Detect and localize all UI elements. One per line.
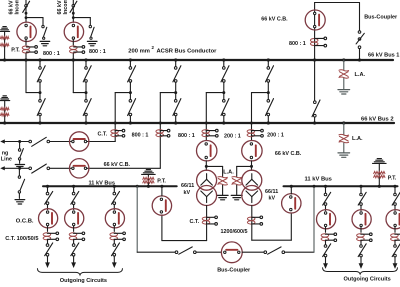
outgoing line 1 earthing switch earth [15, 160, 24, 166]
label L.A. (bus 1) [355, 72, 366, 78]
incoming line 1 crossing dot on bus 1 [24, 58, 27, 61]
11 kV bus coupler wire to OCB [196, 251, 221, 253]
incoming line 1 wire from top [25, 0, 27, 22]
incoming line 2 junction dots [72, 12, 75, 19]
feeder x=325.5: O.C.B. [317, 210, 336, 229]
bus selector transformer 1: dot on bus 1 [222, 58, 225, 61]
feeder x=114.3: O.C.B. [105, 209, 124, 228]
label 200 : 1 (bay 1) [224, 134, 241, 140]
svg-text:Outgoing Circuits: Outgoing Circuits [60, 278, 107, 284]
transformer 2 run to OCB [252, 213, 291, 240]
feeder x=395: O.C.B. [386, 210, 400, 229]
bus selector transformer 1: wire bus1 to isolator [223, 60, 225, 67]
lightning arrester transformer 1 earth [217, 185, 228, 200]
svg-text:C.T.: C.T. [190, 219, 200, 225]
bus selector outgoing line 2: junction dot [174, 82, 177, 94]
11 kV bus coupler wire left [137, 251, 175, 253]
11 kV bus left section [43, 185, 177, 187]
bus selector incoming line 1: dot on bus 2 [38, 121, 41, 124]
incoming line 2 circuit breaker 66 kV C.B. [64, 22, 83, 41]
label 200 mm2 ACSR Bus Conductor [128, 45, 217, 55]
11 kV bus coupler wire right [285, 251, 314, 253]
svg-text:200 : 1: 200 : 1 [224, 134, 241, 140]
bus selector outgoing line 2: isolator to bus 2 [173, 99, 181, 116]
incoming line 2 crossing dot on bus 1 [72, 58, 75, 61]
bus selector incoming line 2: isolator to bus 2 [83, 99, 91, 116]
P.T. on 11 kV bus left [142, 170, 156, 188]
transformer bay 1 circuit breaker 66 kV C.B. [197, 141, 217, 161]
feeder x=114.3: isolator 2 [112, 243, 120, 256]
bus selector incoming line 1: wire bus1 to isolator [39, 60, 41, 67]
label 66 kV C.B. (outgoing lines) [104, 162, 131, 168]
outgoing line 2 circuit breaker (66 kV C.B.) [70, 159, 89, 178]
bus selector transformer 2: isolator to bus 1 [266, 66, 274, 83]
incoming line 2 isolator [70, 1, 77, 12]
bus selector outgoing line 2: dot on bus 2 [174, 121, 177, 124]
bus coupler circuit breaker 66 kV C.B. [305, 10, 325, 30]
transformer bay 2 wire CB to transformer [251, 161, 253, 171]
label Outgoing Circuits (right) [344, 276, 391, 282]
feeder x=73.6: dot on 11 kV bus [72, 185, 75, 188]
bus selector incoming line 1: isolator to bus 1 [37, 66, 45, 83]
bus selector transformer 1: dot on bus 2 [222, 121, 225, 124]
lightning arrester transformer 1 [217, 177, 227, 185]
transformer bay 1 wire CB to transformer [205, 161, 207, 171]
incoming line 2 wire CB to CT [72, 39, 74, 45]
bus selector transformer 2: wire bus1 to isolator [267, 60, 269, 67]
CT 1200/600/5 transformer 1 [202, 216, 217, 225]
bus selector outgoing line 1: wire to bus 2 [129, 94, 131, 123]
P.T. on bus 1 (far left) [0, 27, 10, 62]
O.C.B. transformer 1 wire to 11kV bus [160, 185, 163, 196]
svg-text:200 mm: 200 mm [128, 48, 150, 54]
CT 800:1 outgoing line 1 [111, 129, 125, 137]
feeder x=47.5: dot on 11 kV bus [46, 185, 49, 188]
label 200 : 1 (bay 2) [267, 133, 284, 139]
feeder x=47.5: isolator [45, 191, 53, 204]
label 66 kV Bus 1 [368, 53, 399, 59]
svg-text:O.C.B.: O.C.B. [16, 219, 34, 225]
feeder x=395: wire to O.C.B. [394, 205, 396, 210]
bus selector outgoing line 1: isolator to bus 2 [128, 99, 136, 116]
feeder x=114.3: dot on 11 kV bus [113, 185, 116, 188]
svg-text:Bus-Coupler: Bus-Coupler [364, 14, 398, 20]
lightning arrester transformer 2 [232, 177, 242, 185]
svg-text:800 : 1: 800 : 1 [89, 49, 106, 55]
outgoing line 2 riser from jog [159, 93, 161, 169]
bus coupler top wire [315, 3, 360, 31]
feeder x=325.5: wire to isolator 2 [325, 241, 327, 245]
feeder x=325.5: isolator [323, 192, 331, 205]
feeder x=114.3: wire to O.C.B. [113, 204, 115, 209]
outgoing line 1 crossing dot on bus 2 [114, 122, 117, 125]
incoming line 2 earthing switch [89, 25, 94, 39]
svg-text:Line: Line [1, 157, 12, 163]
CT 800:1 incoming line 2 [70, 46, 85, 54]
outgoing line 1 riser from jog [114, 93, 116, 142]
label P.T. (11 kV left) [157, 179, 166, 185]
feeder x=361: isolator [358, 192, 366, 205]
feeder x=73.6: C.T. 100/50/5 [69, 232, 85, 241]
bus selector transformer 1: wire to bus 2 [223, 94, 225, 123]
outgoing line 2 earthing switch [18, 176, 24, 193]
bus selector incoming line 2: isolator to bus 1 [83, 66, 91, 83]
bus selector outgoing line 1: jog wire to riser [115, 92, 130, 94]
bus selector transformer 2: junction dot [267, 82, 270, 94]
feeder x=73.6: wire to isolator 2 [73, 240, 75, 244]
bus selector outgoing line 2: jog wire to riser [160, 92, 175, 94]
feeder x=73.6: outgoing arrow [71, 256, 76, 268]
feeder x=395: dot on 11 kV bus [393, 185, 396, 188]
svg-text:Incoming: Incoming [15, 0, 21, 15]
feeder x=395: wire to C.T. [394, 227, 396, 232]
feeder x=395: isolator 2 [392, 244, 400, 257]
label 66/11 kV (transformer 2) [265, 189, 278, 202]
transformer bay 1 riser from jog [205, 93, 207, 141]
bus selector incoming line 1: jog wire to riser [26, 92, 40, 94]
bus selector transformer 2: wire to bus 2 [267, 94, 269, 123]
bus selector outgoing line 1: isolator to bus 1 [128, 66, 136, 83]
bus selector incoming line 2: wire to bus 2 [85, 94, 87, 123]
L.A. on bus 2 wire [342, 121, 345, 134]
feeder x=361: wire to isolator [360, 186, 362, 193]
label 800 : 1 (bus coupler) [289, 41, 306, 47]
transformer bay 2 LA branch wire [237, 166, 252, 176]
outgoing line 1 junction dot [18, 140, 21, 143]
bus selector incoming line 2: junction dot [85, 82, 88, 94]
transformer bay 2 crossing dot on bus 2 [250, 122, 253, 125]
CT 800:1 bus coupler [310, 37, 326, 47]
CT 200:1 transformer bay 2 [247, 129, 263, 137]
feeder x=47.5: wire to C.T. [47, 226, 49, 231]
bus selector incoming line 2: wire bus1 to isolator [85, 60, 87, 67]
66 kV Bus 1 busbar [0, 59, 393, 61]
feeder x=395: outgoing arrow [393, 257, 398, 269]
brace outgoing circuits left [37, 268, 122, 275]
outgoing line 2 isolator [29, 164, 50, 173]
svg-text:P.T.: P.T. [388, 175, 397, 181]
feeder x=47.5: wire to isolator [47, 186, 49, 192]
svg-text:P.T.: P.T. [157, 179, 166, 185]
label 800 : 1 (incoming 2) [89, 49, 106, 55]
label 66 kV C.B. (bus coupler) [261, 16, 288, 22]
label 800 : 1 (outgoing 2) [178, 133, 195, 139]
transformer bay 1 crossing dot on bus 2 [205, 122, 208, 125]
CT 200:1 transformer bay 1 [202, 129, 218, 137]
label 800 : 1 (outgoing 1) [132, 133, 149, 139]
svg-text:L.A.: L.A. [352, 136, 363, 142]
bus selector transformer 2: dot on bus 2 [267, 121, 270, 124]
transformer bay 2 riser from jog [251, 93, 253, 141]
label 11 kV Bus (left) [89, 180, 115, 186]
O.C.B. transformer 2 wire to 11kV bus [290, 185, 293, 194]
bus selector outgoing line 2: isolator to bus 1 [173, 66, 181, 83]
incoming line 1 wire to selector jog [25, 54, 27, 93]
transformer bay 1 LA branch wire [206, 166, 222, 176]
svg-text:L.A.: L.A. [355, 72, 366, 78]
label P.T. (bus 1) [11, 48, 20, 54]
feeder x=73.6: wire to C.T. [73, 226, 75, 231]
CT 1200/600/5 transformer 2 [247, 216, 262, 225]
feeder x=47.5: isolator 2 [45, 243, 53, 256]
label 66/11 kV (transformer 1) [181, 183, 194, 196]
bus selector transformer 1: junction dot [222, 82, 225, 94]
label P.T. (11 kV right) [388, 175, 397, 181]
feeder x=325.5: isolator 2 [323, 244, 331, 257]
transformer 2 (66/11 kV) primary winding [242, 170, 262, 190]
transformer bay 2 junction dot (LA tap) [250, 165, 253, 168]
incoming line 1 earth [40, 41, 50, 45]
11 kV bus coupler right riser [313, 185, 316, 252]
outgoing line 1 earthing switch [18, 149, 23, 160]
label 66 kV C.B. (transformer bays) [275, 151, 302, 157]
label C.T. (outgoing line 1) [98, 131, 108, 137]
11 kV bus coupler left riser [136, 185, 139, 252]
bus coupler wire to bus 2 [313, 117, 316, 125]
incoming line 1 wire CB to CT [25, 39, 27, 45]
feeder x=361: wire to C.T. [360, 227, 362, 232]
CT 800:1 incoming line 1 [22, 46, 37, 54]
incoming line 2 wire from top [72, 0, 74, 22]
feeder x=395: isolator [392, 192, 400, 205]
bus coupler wire bus1 to bus2 [314, 60, 316, 101]
outgoing line 2 crossing dot on bus 2 [159, 122, 162, 125]
feeder x=114.3: wire to isolator [113, 186, 115, 192]
feeder x=325.5: C.T. 100/50/5 [321, 233, 337, 242]
feeder x=73.6: wire to O.C.B. [73, 204, 75, 209]
feeder x=47.5: C.T. 100/50/5 [43, 232, 58, 241]
outgoing line 1 isolator [29, 137, 50, 146]
outgoing line 1 arrow to left [0, 139, 5, 143]
CT 800:1 outgoing line 2 [156, 129, 170, 137]
feeder x=361: C.T. 100/50/5 [357, 233, 373, 242]
bus coupler isolator to bus 2 [312, 100, 320, 117]
label C.T. (transformer 1 secondary) [190, 219, 200, 225]
feeder x=114.3: isolator [112, 191, 120, 204]
label 800 : 1 (incoming 1) [43, 51, 60, 57]
svg-text:P.T.: P.T. [11, 48, 20, 54]
incoming line 1 earthing switch [42, 25, 47, 39]
transformer 2 (66/11 kV) secondary winding [242, 186, 262, 206]
outgoing line 2 arrow to left [0, 166, 5, 170]
O.C.B. transformer 1 incomer [152, 196, 171, 215]
feeder x=73.6: isolator [71, 191, 79, 204]
label Bus-Coupler (top) [364, 14, 398, 20]
transformer 1 (66/11 kV) primary winding [197, 170, 217, 190]
incoming line 1 label [9, 0, 21, 15]
label 66 kV Bus 2 [361, 117, 394, 123]
feeder x=395: wire to isolator [394, 186, 396, 193]
transformer 2 secondary wire [251, 206, 253, 241]
incoming line 1 junction dots [25, 12, 28, 19]
bus selector outgoing line 1: dot on bus 1 [129, 58, 132, 61]
feeder x=361: isolator 2 [358, 244, 366, 257]
bus selector outgoing line 2: wire to bus 2 [175, 94, 177, 123]
transformer 1 run to OCB [162, 215, 207, 241]
bus selector transformer 2: isolator to bus 2 [266, 99, 274, 116]
bus selector transformer 1: isolator to bus 2 [221, 99, 229, 116]
outgoing line 2 earthing switch earth [15, 193, 25, 204]
outgoing line 2 earthing switch wire [18, 168, 20, 176]
11 kV bus coupler isolator right [264, 247, 285, 254]
incoming line 2 earthing switch branch wire [73, 18, 90, 26]
svg-text:ACSR Bus Conductor: ACSR Bus Conductor [157, 48, 218, 54]
svg-text:66/11: 66/11 [265, 189, 278, 195]
lightning arrester bus 2 earth [338, 143, 350, 157]
feeder x=395: C.T. 100/50/5 [391, 233, 400, 242]
bus selector transformer 2: dot on bus 1 [267, 58, 270, 61]
bus selector outgoing line 2: wire bus1 to isolator [175, 60, 177, 67]
svg-text:66 kV C.B.: 66 kV C.B. [275, 151, 302, 157]
svg-text:200 : 1: 200 : 1 [267, 133, 284, 139]
label 11 kV Bus (right) [305, 176, 332, 182]
feeder x=325.5: wire to O.C.B. [325, 205, 327, 210]
feeder x=73.6: wire to isolator [73, 186, 75, 192]
label O.C.B. [16, 219, 34, 225]
feeder x=395: wire to isolator 2 [394, 241, 396, 245]
bus selector transformer 2: jog wire to riser [252, 92, 269, 94]
feeder x=73.6: isolator 2 [71, 243, 79, 256]
66 kV Bus 2 busbar [0, 122, 394, 124]
bus selector incoming line 1: junction dot [39, 82, 42, 94]
transformer bay 2 circuit breaker 66 kV C.B. [242, 141, 262, 161]
feeder x=325.5: wire to isolator [325, 186, 327, 193]
outgoing line 1 wire [4, 141, 115, 143]
lightning arrester bus 1 earth [338, 78, 350, 94]
lightning arrester transformer 2 earth [231, 185, 242, 200]
bus selector incoming line 1: wire to bus 2 [39, 94, 41, 123]
svg-text:800 : 1: 800 : 1 [289, 41, 306, 47]
svg-text:11 kV Bus: 11 kV Bus [89, 180, 115, 186]
svg-text:66 kV Bus 1: 66 kV Bus 1 [368, 53, 399, 59]
feeder x=361: wire to isolator 2 [360, 241, 362, 245]
svg-text:1200/600/5: 1200/600/5 [221, 229, 248, 235]
feeder x=47.5: outgoing arrow [45, 256, 50, 268]
outgoing line 1 earthing switch wire [19, 142, 21, 149]
label L.A. (transformers) [223, 169, 234, 175]
incoming line 1 isolator [23, 1, 30, 12]
11 kV bus coupler wire from OCB [242, 251, 264, 253]
svg-text:Bus-Coupler: Bus-Coupler [217, 267, 251, 273]
feeder x=361: O.C.B. [352, 210, 371, 229]
Bus-Coupler O.C.B. [221, 242, 242, 263]
11 kV bus coupler isolator left [175, 247, 196, 254]
feeder x=114.3: outgoing arrow [112, 256, 117, 268]
bus selector outgoing line 2: dot on bus 1 [174, 58, 177, 61]
O.C.B. transformer 2 incomer [282, 194, 301, 213]
bus coupler riser wire [314, 3, 316, 61]
svg-text:66/11: 66/11 [181, 183, 194, 189]
svg-text:C.T. 100/50/5: C.T. 100/50/5 [5, 236, 38, 242]
svg-text:11 kV Bus: 11 kV Bus [305, 176, 332, 182]
incoming line 2 earth [87, 41, 97, 45]
bus coupler wire isolator to bus 1 [358, 49, 361, 62]
11 kV bus right section [284, 185, 398, 187]
label Outgoing Circuits (left) [60, 278, 107, 284]
feeder x=47.5: wire to isolator 2 [47, 240, 49, 244]
feeder x=361: dot on 11 kV bus [359, 185, 362, 188]
svg-text:66 kV C.B.: 66 kV C.B. [261, 16, 288, 22]
feeder x=325.5: wire to C.T. [325, 227, 327, 232]
transformer 1 secondary wire [206, 206, 208, 241]
svg-text:L.A.: L.A. [223, 169, 234, 175]
bus selector incoming line 2: dot on bus 1 [84, 58, 87, 61]
label 1200/600/5 [221, 229, 248, 235]
svg-text:kV: kV [269, 195, 276, 201]
bus selector incoming line 2: jog wire to riser [73, 92, 86, 94]
label Bus-Coupler (bottom) [217, 267, 251, 273]
svg-text:C.T.: C.T. [98, 131, 108, 137]
svg-text:66 kV C.B.: 66 kV C.B. [104, 162, 131, 168]
svg-text:800 : 1: 800 : 1 [178, 133, 195, 139]
label C.T. 100/50/5 [5, 236, 38, 242]
label ng / Line (outgoing line) [1, 151, 12, 163]
svg-text:66 kV Bus 2: 66 kV Bus 2 [361, 117, 394, 123]
P.T. on 11 kV bus right [373, 159, 387, 188]
feeder x=47.5: wire to O.C.B. [47, 204, 49, 209]
label L.A. (bus 2) [352, 136, 363, 142]
bus selector outgoing line 1: wire bus1 to isolator [129, 60, 131, 67]
incoming line 2 wire to selector jog [72, 54, 74, 93]
bus selector incoming line 1: isolator to bus 2 [37, 99, 45, 116]
feeder x=361: wire to O.C.B. [360, 205, 362, 210]
feeder x=325.5: dot on 11 kV bus [324, 185, 327, 188]
bus coupler isolator to bus 1 [356, 31, 364, 49]
P.T. on bus 2 (far left) [0, 96, 10, 125]
feeder x=114.3: wire to isolator 2 [113, 240, 115, 244]
bus coupler dot on bus 1 [313, 58, 316, 61]
transformer 1 (66/11 kV) secondary winding [197, 186, 217, 206]
svg-text:Outgoing Circuits: Outgoing Circuits [344, 276, 391, 282]
bus selector outgoing line 1: junction dot [129, 82, 132, 94]
svg-text:kV: kV [184, 190, 191, 196]
svg-text:800 : 1: 800 : 1 [132, 133, 149, 139]
incoming line 2 label [57, 0, 69, 15]
incoming line 1 earthing switch branch wire [26, 18, 43, 26]
incoming line 1 circuit breaker 66 kV C.B. [17, 22, 36, 41]
L.A. on bus 1 wire [342, 58, 345, 70]
bus selector transformer 1: isolator to bus 1 [221, 66, 229, 83]
outgoing line 2 junction dot [18, 167, 21, 170]
feeder x=73.6: O.C.B. [65, 209, 84, 228]
svg-text:Incoming: Incoming [63, 0, 69, 15]
feeder x=325.5: outgoing arrow [323, 257, 328, 269]
feeder x=114.3: C.T. 100/50/5 [110, 232, 126, 241]
feeder x=114.3: wire to C.T. [113, 226, 115, 231]
bus selector incoming line 2: dot on bus 2 [84, 121, 87, 124]
transformer bay 1 junction dot (LA tap) [205, 165, 208, 168]
bus selector outgoing line 1: dot on bus 2 [129, 121, 132, 124]
lightning arrester bus 2 [339, 134, 349, 142]
bus selector incoming line 1: dot on bus 1 [38, 58, 41, 61]
feeder x=361: outgoing arrow [359, 257, 364, 269]
feeder x=47.5: O.C.B. [39, 209, 58, 228]
outgoing line 1 circuit breaker (66 kV C.B.) [70, 132, 89, 151]
svg-text:800 : 1: 800 : 1 [43, 51, 60, 57]
lightning arrester bus 1 [339, 70, 349, 78]
brace outgoing circuits right [323, 267, 398, 274]
bus selector transformer 1: jog wire to riser [206, 92, 224, 94]
outgoing line 2 wire [4, 167, 160, 169]
